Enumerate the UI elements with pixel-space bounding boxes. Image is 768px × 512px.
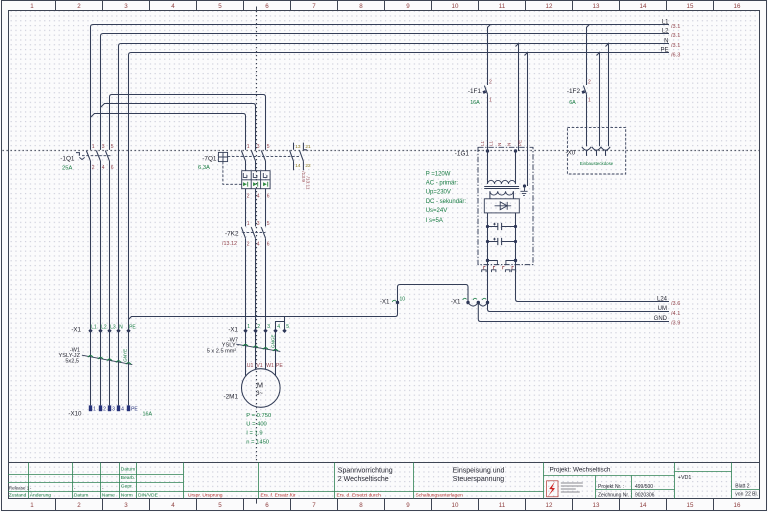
fuse -1F1 16A: [468, 79, 492, 106]
svg-text:-7K2: -7K2: [225, 231, 239, 238]
revision row Release 1: [9, 485, 104, 490]
svg-text:13: 13: [593, 502, 600, 509]
svg-text:L1: L1: [662, 19, 669, 25]
svg-text:PE: PE: [276, 363, 283, 369]
svg-text:Änderung: Änderung: [30, 492, 51, 499]
sheet number field Blatt 2 von 22 Bl.: [735, 483, 758, 497]
svg-text:Up=230V: Up=230V: [426, 189, 451, 195]
svg-text:9020306: 9020306: [635, 492, 655, 498]
svg-text:1: 1: [30, 3, 34, 10]
svg-text:22: 22: [305, 163, 311, 169]
junction G1 input dots: [486, 149, 517, 152]
plant title Spannvorrichtung 2 Wechseltische: [338, 467, 393, 483]
svg-text:6: 6: [267, 193, 270, 199]
svg-text:14: 14: [640, 3, 647, 10]
motor value labels P U I n: [246, 413, 271, 446]
transformer T1 in G1: [484, 151, 519, 199]
svg-text:W1: W1: [266, 363, 274, 369]
auxiliary contact 21/22 of 7Q1 (NC): [300, 143, 312, 171]
svg-text:2: 2: [247, 193, 250, 199]
wire net L24 output: [516, 261, 670, 302]
net label L1 with cross reference /3.1: [662, 19, 681, 30]
svg-text:21: 21: [305, 144, 311, 150]
svg-text:10: 10: [400, 297, 406, 303]
location field +VD1: [677, 466, 691, 481]
svg-text:I = 1.9: I = 1.9: [246, 431, 262, 437]
svg-text:-2M1: -2M1: [223, 394, 238, 401]
aux contact cross references /13.9 /13.11 (rotated): [300, 171, 310, 190]
svg-text:2 Wechseltische: 2 Wechseltische: [338, 476, 389, 483]
fold mark dotted line horizontal: [3, 150, 760, 152]
svg-text:1: 1: [247, 324, 250, 330]
svg-text:12: 12: [546, 3, 553, 10]
svg-text:11: 11: [499, 3, 506, 10]
svg-text:1: 1: [588, 98, 591, 104]
svg-text:P =120W: P =120W: [426, 171, 451, 177]
svg-text:N: N: [506, 143, 511, 146]
svg-text:4: 4: [257, 193, 260, 199]
wire X1 to X10 feeder conductors: [91, 331, 129, 406]
svg-text:/4.1: /4.1: [671, 311, 680, 317]
project number fields: [598, 484, 655, 498]
svg-text:11: 11: [499, 502, 506, 509]
svg-text:GNYE: GNYE: [122, 349, 127, 362]
company logo (red lightning): [547, 481, 583, 497]
title block bottom labels: [9, 492, 159, 499]
svg-text:5: 5: [267, 221, 270, 227]
svg-text:L1: L1: [91, 324, 97, 330]
wire net L1 (top rail, drops to Q1 pole 1, branch to 7Q1 pin 1, taps to fuses F1 F2): [91, 25, 670, 150]
svg-text:499/500: 499/500: [635, 484, 653, 490]
auxiliary contact 13/14 of 7Q1: [290, 143, 301, 171]
terminal strip X1 left (L1 L2 L3 N PE): [71, 324, 136, 333]
svg-text:2: 2: [588, 79, 591, 85]
svg-text:2: 2: [92, 165, 95, 171]
svg-text:8: 8: [359, 502, 363, 509]
wire 7Q1 outputs down to 7K2: [246, 189, 266, 227]
svg-text:/3.1: /3.1: [671, 24, 680, 30]
svg-text:4: 4: [121, 407, 124, 413]
svg-text:5: 5: [218, 502, 222, 509]
svg-text:14: 14: [295, 163, 301, 169]
svg-text:6: 6: [111, 165, 114, 171]
net label PE with cross reference /6.3: [660, 47, 680, 58]
svg-text:-X0: -X0: [566, 150, 576, 157]
svg-text:Schaltungsunterlagen: Schaltungsunterlagen: [416, 493, 464, 499]
svg-text:2: 2: [77, 502, 81, 509]
net label L2 with cross reference /3.1: [662, 28, 681, 39]
net label GND with cross reference /3.9: [654, 316, 681, 327]
title block labels column Datum Bearb Gepr: [121, 467, 135, 490]
svg-text:10: 10: [452, 3, 459, 10]
svg-text:12: 12: [546, 502, 553, 509]
svg-text:9: 9: [406, 3, 410, 10]
svg-text:10: 10: [452, 502, 459, 509]
svg-text:PE: PE: [517, 140, 522, 146]
svg-text:-X10: -X10: [68, 411, 82, 418]
page title Einspeisung und Steuerspannung: [453, 467, 505, 483]
net label L24 with cross reference /3.6: [657, 296, 680, 307]
svg-text:8: 8: [359, 3, 363, 10]
svg-text:1: 1: [92, 144, 95, 150]
wire below fuse -1F1: [487, 94, 489, 151]
svg-text:-X1: -X1: [228, 327, 238, 334]
net label UM with cross reference /4.1: [658, 306, 681, 317]
svg-text:1: 1: [93, 407, 96, 413]
svg-text:GNGE: GNGE: [270, 334, 275, 348]
terminal X1:10: [380, 297, 405, 306]
svg-text:22 Bl.: 22 Bl.: [745, 492, 758, 498]
-X0 socket contacts: [582, 147, 610, 156]
svg-text:L1: L1: [480, 140, 485, 146]
svg-text:3: 3: [257, 144, 260, 150]
cable W7 (YSLY 5 x 2.5 mm2): [207, 334, 281, 354]
svg-text:Release 1: Release 1: [9, 485, 30, 490]
-7K2 pin numbers 1 3 5 / 2 4 6: [247, 221, 270, 247]
svg-text:3: 3: [124, 3, 128, 10]
svg-text:/13.12: /13.12: [222, 241, 237, 247]
svg-text:-1F1: -1F1: [468, 88, 482, 95]
svg-text:3~: 3~: [256, 391, 263, 397]
svg-text:Einbausteckdose: Einbausteckdose: [580, 161, 614, 166]
svg-text:-1G1: -1G1: [455, 150, 470, 157]
title block red labels: [188, 493, 463, 499]
socket terminal X10 (16A): [68, 405, 152, 417]
svg-text:3: 3: [267, 324, 270, 330]
svg-text:n = 1450: n = 1450: [246, 440, 269, 446]
G1 parameter text block: [426, 171, 467, 223]
motor M1 (-2M1 3~): [223, 369, 280, 408]
svg-text:Gepr.: Gepr.: [121, 483, 133, 489]
svg-text:2: 2: [77, 3, 81, 10]
svg-text:6: 6: [265, 502, 269, 509]
svg-text:+VD1: +VD1: [678, 475, 692, 481]
svg-text:5: 5: [111, 144, 114, 150]
svg-text:DIN/VDE: DIN/VDE: [138, 493, 159, 499]
svg-text:Datum: Datum: [121, 467, 135, 473]
svg-text:L24: L24: [657, 296, 668, 302]
svg-text:N: N: [119, 324, 123, 330]
wire net UM output: [488, 261, 670, 312]
wire net L2 (top rail, drops to Q1 pole 3, branch to 7Q1 pin 3): [101, 34, 670, 150]
svg-text:4: 4: [102, 165, 105, 171]
svg-text:2: 2: [257, 324, 260, 330]
svg-text:25A: 25A: [62, 166, 72, 172]
svg-text:16: 16: [734, 502, 741, 509]
svg-text:14: 14: [640, 502, 647, 509]
G1 output pins with plug symbols: [482, 259, 518, 272]
svg-text:N: N: [664, 38, 668, 44]
svg-text:Einspeisung und: Einspeisung und: [453, 467, 505, 474]
svg-text:5: 5: [286, 324, 289, 330]
svg-text:Ers. f. Ersatz für: Ers. f. Ersatz für: [261, 493, 296, 499]
wire motor phases from 7K2 to X1 terminals and motor: [246, 239, 276, 376]
svg-text:Steuerspannung: Steuerspannung: [453, 476, 504, 483]
svg-text:16A: 16A: [143, 411, 153, 417]
svg-text:L2: L2: [101, 324, 107, 330]
svg-text:/6.3: /6.3: [671, 53, 680, 59]
svg-text:1: 1: [247, 144, 250, 150]
svg-text:4: 4: [171, 502, 175, 509]
svg-text:5: 5: [218, 3, 222, 10]
svg-text:4: 4: [171, 3, 175, 10]
svg-text:GND: GND: [654, 316, 668, 322]
terminal group X1 (GND link) with jumpers: [451, 298, 489, 306]
svg-text:15: 15: [687, 502, 694, 509]
-1Q1 pin numbers 1 3 5 / 2 4 6: [92, 144, 114, 171]
contactor K2 (-7K2) 3-pole contacts: [241, 227, 265, 238]
svg-text:5x2,5: 5x2,5: [65, 358, 79, 364]
-7Q1 operator square symbol: [218, 152, 300, 184]
wire net PE (top rail, down to X1 and X10, taps to G1 ground and X0, bottom link to X1:10 and GND terminals): [129, 53, 670, 331]
svg-text:/3.9: /3.9: [671, 321, 680, 327]
svg-text:6A: 6A: [569, 100, 576, 106]
svg-text:-X1: -X1: [71, 327, 81, 334]
svg-text:2: 2: [103, 407, 106, 413]
svg-text:Urspr. Ursprung: Urspr. Ursprung: [188, 493, 223, 499]
svg-text:4: 4: [257, 241, 260, 247]
net label N with cross reference /3.1: [664, 38, 680, 49]
svg-text:AC - primär:: AC - primär:: [426, 180, 459, 186]
svg-text:V1: V1: [256, 363, 262, 369]
svg-text:13: 13: [593, 3, 600, 10]
svg-text:-X1: -X1: [380, 298, 390, 305]
svg-text:Norm: Norm: [121, 493, 133, 499]
svg-text:U1: U1: [247, 363, 254, 369]
wire below fuse -1F2: [586, 94, 588, 146]
svg-text:4: 4: [277, 324, 280, 330]
svg-text:UM: UM: [658, 306, 667, 312]
svg-text:Datum: Datum: [74, 493, 88, 499]
svg-text:7: 7: [312, 3, 316, 10]
svg-text:M: M: [257, 381, 263, 390]
svg-text:Spannvorrichtung: Spannvorrichtung: [338, 467, 393, 474]
svg-text:=: =: [677, 466, 680, 471]
socket outlet X0 (-X0 Einbausteckdose): [566, 127, 626, 174]
svg-text:U = 400: U = 400: [246, 422, 266, 428]
title block: [8, 463, 760, 499]
wire net GND output: [478, 303, 669, 322]
svg-text:von: von: [735, 492, 743, 498]
svg-text:Blatt 2: Blatt 2: [735, 483, 749, 489]
fuse -1F2 6A: [567, 79, 591, 106]
svg-text:1: 1: [489, 98, 492, 104]
svg-text:6: 6: [267, 241, 270, 247]
svg-text:3: 3: [112, 407, 115, 413]
svg-text:2: 2: [489, 79, 492, 85]
power supply unit G1 (-1G1) enclosure: [455, 147, 533, 264]
svg-text:7: 7: [312, 502, 316, 509]
-7Q1 pin numbers 1 3 5 / 2 4 6: [247, 144, 270, 199]
svg-text:-7Q1: -7Q1: [202, 155, 217, 162]
svg-text:15: 15: [687, 3, 694, 10]
wire net L3 link (Q1 pole 5 to 7Q1 pin 5 overhead): [110, 95, 266, 150]
cable W1 (YSLY-JZ 5x2,5): [59, 347, 133, 364]
motor conductor labels U1 V1 W1 PE: [247, 363, 284, 369]
svg-text:Name: Name: [102, 493, 115, 499]
svg-text:I s=5A: I s=5A: [426, 218, 443, 224]
svg-text:5 x 2.5 mm²: 5 x 2.5 mm²: [207, 348, 237, 354]
svg-text:Projekt Nr. :: Projekt Nr. :: [598, 484, 624, 490]
svg-text:P = 0.750: P = 0.750: [246, 413, 271, 419]
svg-text:Ers. d. Ersetzt durch: Ers. d. Ersetzt durch: [337, 493, 382, 499]
svg-text:/13.11: /13.11: [305, 177, 311, 190]
svg-text:N: N: [497, 143, 502, 146]
svg-text:Bearb.: Bearb.: [121, 475, 135, 481]
wire Q1 outputs down to X1: [91, 165, 110, 331]
svg-text:3: 3: [102, 144, 105, 150]
svg-text:L1: L1: [489, 140, 494, 146]
svg-text:3: 3: [257, 221, 260, 227]
svg-text:13: 13: [295, 144, 301, 150]
svg-text:1: 1: [30, 502, 34, 509]
svg-text:Us=24V: Us=24V: [426, 208, 448, 214]
svg-text:/3.1: /3.1: [671, 43, 680, 49]
svg-text:/3.1: /3.1: [671, 33, 680, 39]
svg-text:5: 5: [267, 144, 270, 150]
svg-text:Zustand: Zustand: [9, 493, 27, 499]
svg-text:6: 6: [265, 3, 269, 10]
svg-text:9: 9: [406, 502, 410, 509]
svg-text:3: 3: [124, 502, 128, 509]
ground symbol inside G1 (PE earth): [520, 184, 527, 195]
-7Q1 thermal overload block: [242, 171, 270, 189]
fold mark dotted line vertical: [256, 11, 258, 462]
-1G1 terminal wire labels L1 L1 N N PE (rotated red): [480, 140, 523, 146]
rectifier bridge in G1: [484, 199, 519, 213]
smoothing capacitors C1 C2 in G1: [486, 213, 517, 261]
svg-text:-1F2: -1F2: [567, 88, 581, 95]
svg-text:16: 16: [734, 3, 741, 10]
svg-text:L2: L2: [662, 28, 669, 34]
svg-text:-1Q1: -1Q1: [60, 156, 75, 163]
svg-text:Zeichnung Nr. :: Zeichnung Nr. :: [598, 492, 632, 498]
switch Q1 (-1Q1 main switch 25A) 3-pole contacts: [76, 151, 111, 166]
wire net N (top rail, down to X1, taps to G1 and X0): [119, 44, 670, 331]
svg-text:PE: PE: [129, 324, 136, 330]
svg-text:1: 1: [247, 221, 250, 227]
svg-text:2: 2: [247, 241, 250, 247]
svg-text:-X1: -X1: [451, 298, 461, 305]
svg-text:16A: 16A: [470, 100, 480, 106]
svg-text:Projekt: Wechseltisch: Projekt: Wechseltisch: [550, 467, 611, 474]
svg-text:DC - sekundär:: DC - sekundär:: [426, 199, 467, 205]
svg-text:6,3A: 6,3A: [198, 165, 210, 171]
terminal strip X1 motor side (1 2 3 4 5): [228, 324, 289, 334]
svg-text:PE: PE: [131, 407, 138, 413]
svg-text:PE: PE: [660, 47, 668, 53]
breaker Q2 (-7Q1 motor protection switch 6.3A) contacts: [241, 151, 265, 171]
svg-text:/3.6: /3.6: [671, 301, 680, 307]
svg-text:L3: L3: [110, 324, 116, 330]
